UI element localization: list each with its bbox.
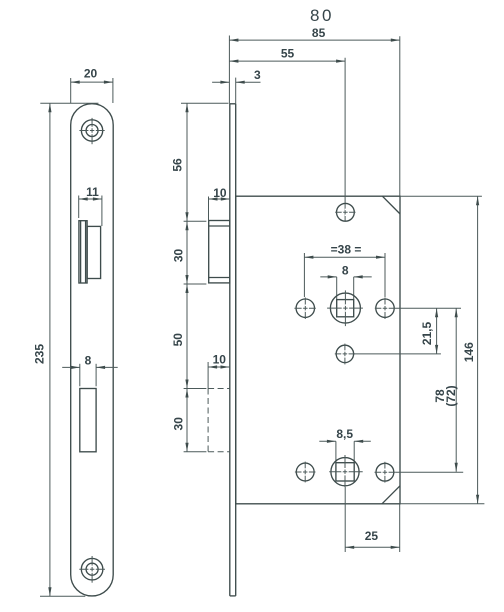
svg-text:30: 30 (171, 417, 185, 431)
svg-text:8,5: 8,5 (336, 427, 353, 441)
svg-text:56: 56 (171, 158, 185, 172)
svg-text:235: 235 (33, 344, 47, 364)
svg-text:146: 146 (462, 342, 476, 362)
svg-text:(72): (72) (444, 385, 458, 406)
svg-text:10: 10 (213, 353, 227, 367)
svg-text:25: 25 (365, 529, 379, 543)
svg-text:10: 10 (213, 186, 227, 200)
svg-text:80: 80 (310, 6, 334, 25)
svg-text:21,5: 21,5 (420, 321, 434, 345)
svg-text:=38 =: =38 = (331, 243, 362, 257)
svg-text:3: 3 (254, 68, 261, 82)
svg-text:55: 55 (281, 47, 295, 61)
svg-text:8: 8 (342, 264, 349, 278)
svg-text:50: 50 (171, 333, 185, 347)
svg-text:8: 8 (85, 353, 92, 367)
svg-text:85: 85 (312, 26, 326, 40)
svg-text:30: 30 (172, 249, 186, 263)
svg-text:20: 20 (84, 67, 98, 81)
svg-text:11: 11 (86, 185, 99, 199)
